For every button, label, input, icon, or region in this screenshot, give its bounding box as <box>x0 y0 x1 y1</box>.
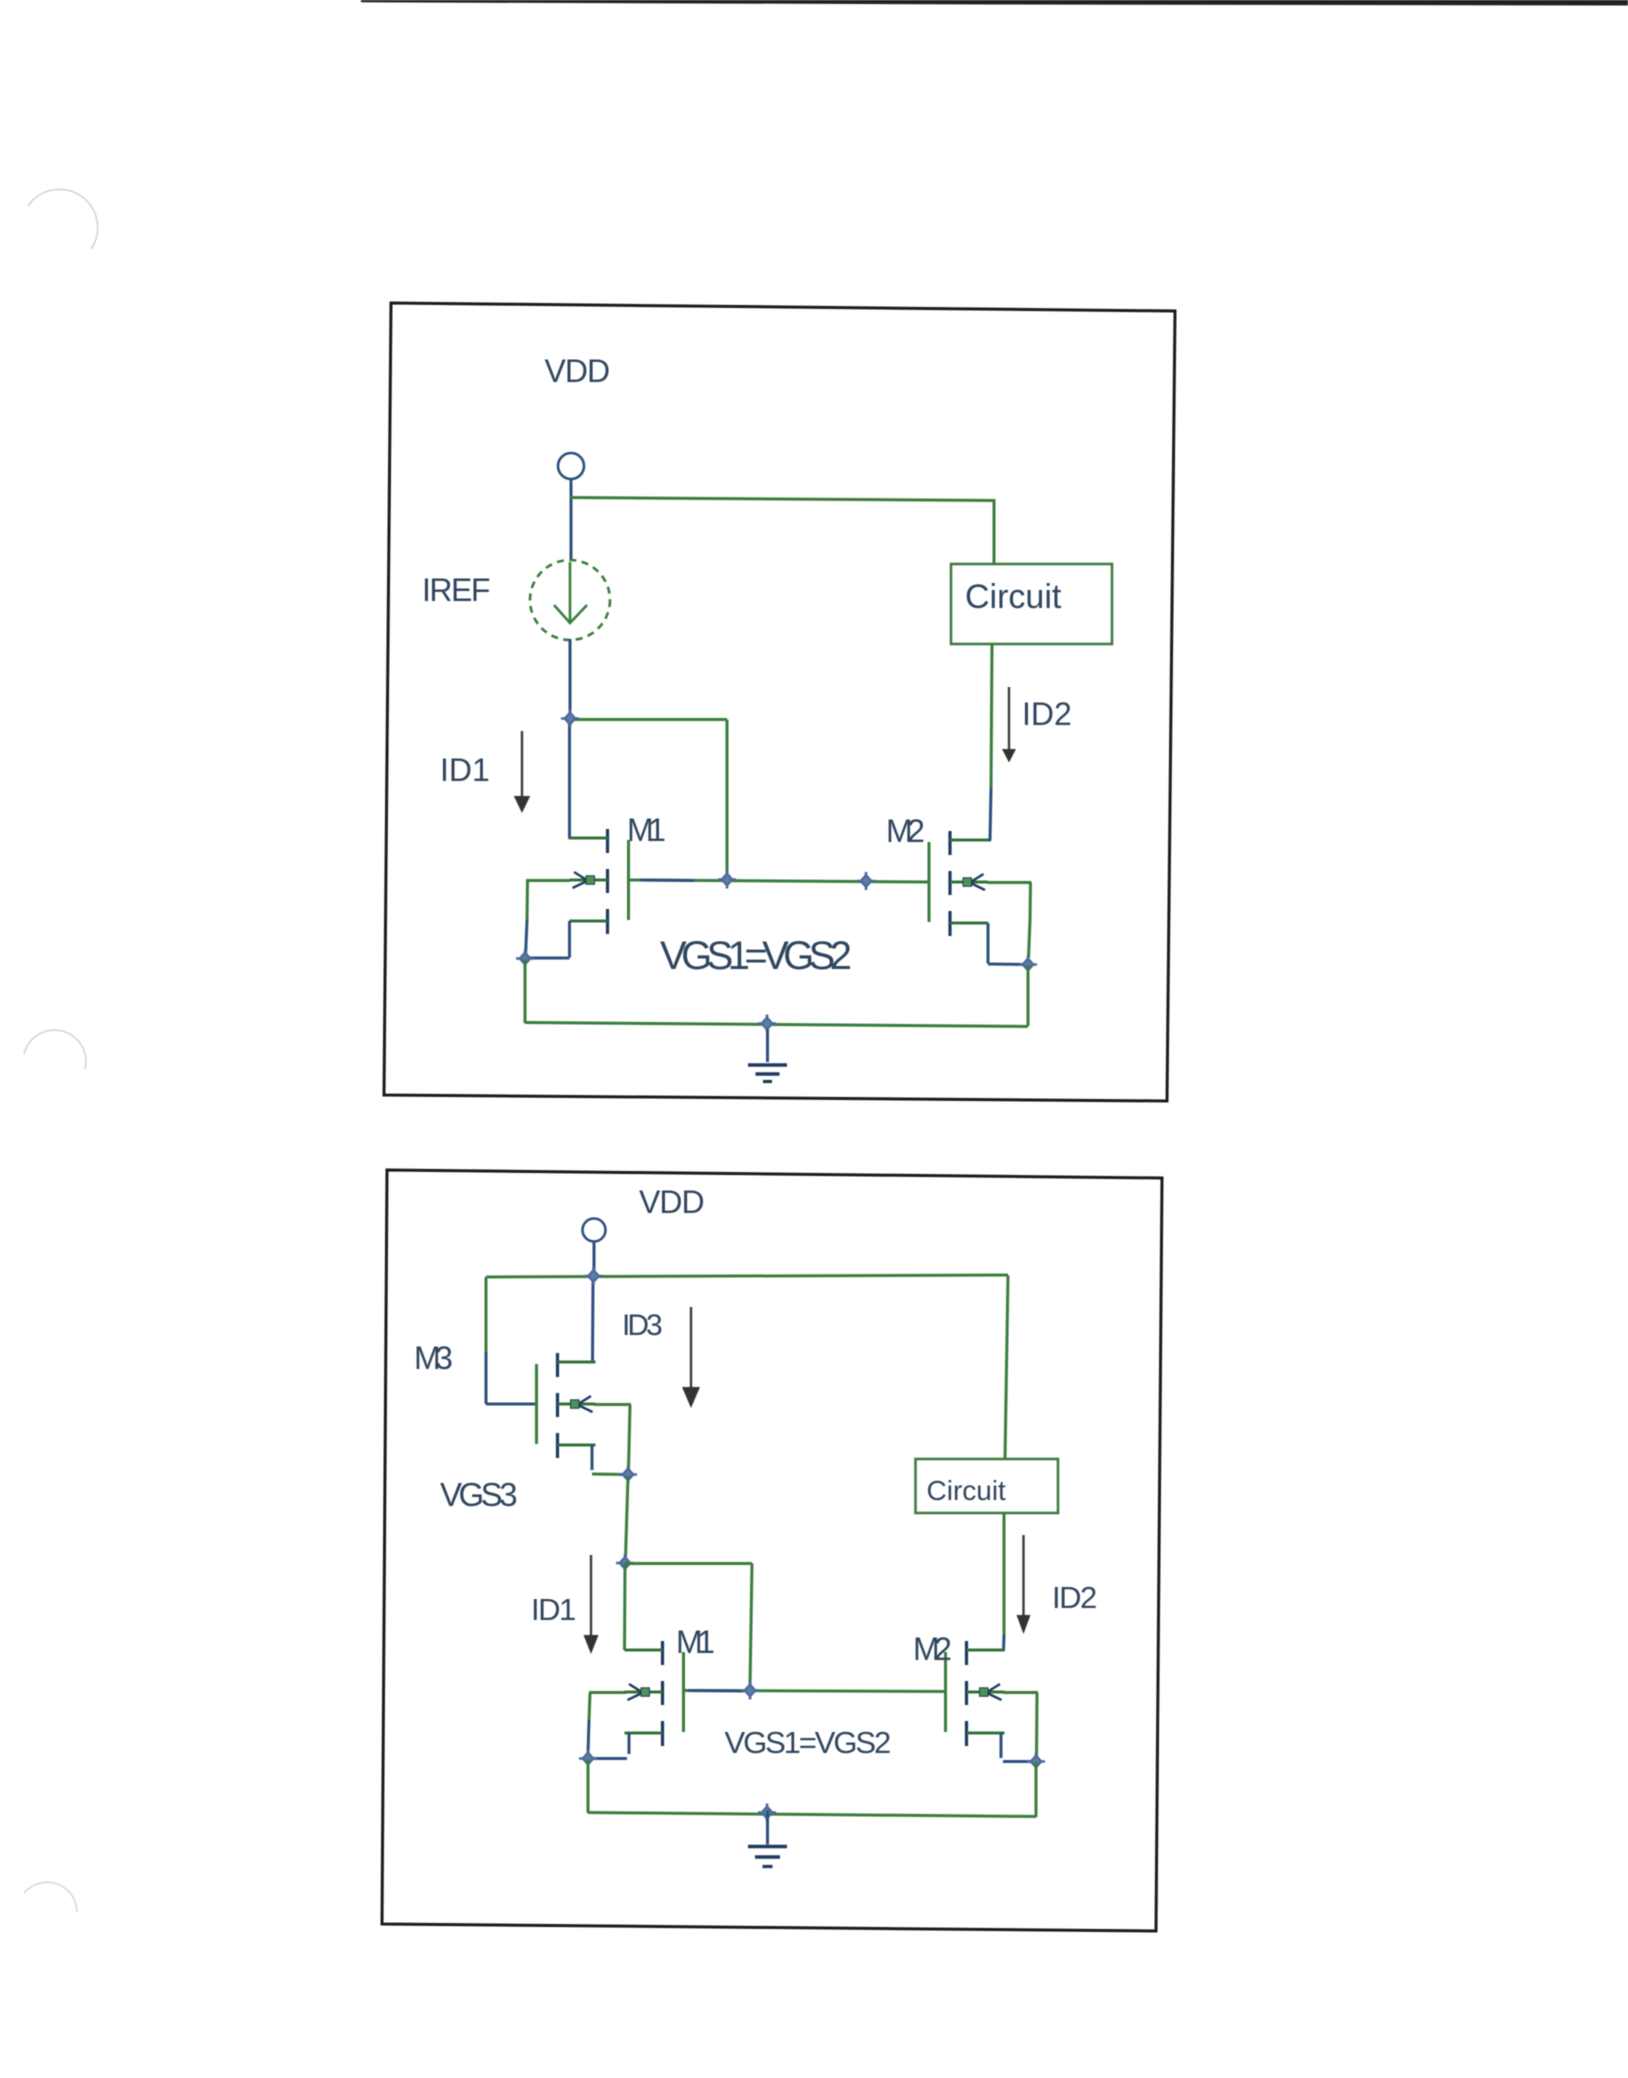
label ID1 <box>440 752 490 788</box>
label VDD (net VDD, schematic 1) <box>545 353 610 389</box>
svg-text:ID1: ID1 <box>531 1592 575 1627</box>
svg-text:ID3: ID3 <box>622 1309 662 1342</box>
wire M1 source leg <box>527 921 570 958</box>
wire VDD terminal to IREF / rail <box>570 478 573 561</box>
wire gate bus M1 to M2 (schematic 2) <box>684 1691 946 1692</box>
wire M3 source leg <box>592 1445 626 1475</box>
wire M1 source leg (schematic 2) <box>590 1733 629 1759</box>
node gate bus junction 1 <box>718 871 736 889</box>
node gate bus dot (schematic 2) <box>741 1682 759 1700</box>
circuit block (schematic 1) <box>951 564 1112 644</box>
label M1 (schematic 2) <box>676 1624 714 1660</box>
svg-text:Circuit: Circuit <box>965 578 1062 616</box>
schematic 1 frame <box>384 303 1175 1101</box>
svg-text:VGS3: VGS3 <box>440 1476 516 1513</box>
schematic 2 frame <box>382 1170 1162 1931</box>
wire node B down to M1 drain <box>623 1564 627 1650</box>
circuit block (schematic 2) <box>916 1459 1059 1513</box>
wire M2 bulk to source node <box>987 883 1032 959</box>
current arrow ID1 <box>514 731 530 813</box>
node B dot (M1 drain node) <box>616 1554 634 1572</box>
wire VDD rail (schematic 2) <box>486 1275 1008 1277</box>
wire node B to gate loop <box>625 1564 752 1687</box>
node VDD terminal (schematic 1) <box>558 453 584 479</box>
svg-text:IREF: IREF <box>422 572 490 608</box>
node ground rail dot <box>758 1015 776 1033</box>
wire rail dot to M3 drain <box>591 1281 595 1363</box>
node M2 source dot (schematic 2) <box>1027 1753 1045 1771</box>
label M2 (schematic 2) <box>913 1631 951 1667</box>
wire IREF to node A <box>569 639 572 719</box>
node M1 source dot (schematic 2) <box>579 1750 597 1768</box>
svg-text:M2: M2 <box>886 813 924 849</box>
wire gate bus M1 to M2 <box>629 880 928 882</box>
transistor M2 (schematic 2, mirrored) <box>944 1641 1005 1746</box>
svg-text:M1: M1 <box>676 1624 714 1660</box>
wire node A down to M1 drain <box>568 719 571 839</box>
svg-text:VGS1=VGS2: VGS1=VGS2 <box>660 934 851 978</box>
svg-text:ID2: ID2 <box>1022 696 1072 732</box>
wire M1 source to ground rail <box>524 959 527 1023</box>
wire M1 bulk to source node <box>526 881 571 958</box>
label ID2 (schematic 2) <box>1052 1580 1096 1615</box>
ground (schematic 1) <box>748 1029 787 1082</box>
label Circuit <box>965 578 1062 616</box>
wire M1 bulk to source node (schematic 2) <box>588 1693 626 1754</box>
current arrow ID2 (schematic 2) <box>1017 1535 1031 1634</box>
svg-text:M3: M3 <box>414 1340 452 1376</box>
transistor M1 (schematic 2) <box>625 1641 686 1746</box>
wire rail to Circuit block (schematic 2) <box>1005 1276 1008 1460</box>
transistor M3 (mirrored) <box>535 1353 596 1458</box>
ground (schematic 2) <box>748 1811 787 1867</box>
wire Circuit block to M2 drain (schematic 2) <box>1002 1513 1006 1651</box>
label VGS1=VGS2 (schematic 2) <box>725 1725 890 1760</box>
wire ground rail (schematic 1) <box>525 1023 1028 1027</box>
svg-text:Circuit: Circuit <box>927 1475 1007 1506</box>
transistor M1 (schematic 1) <box>570 829 631 934</box>
current source IREF <box>530 560 610 640</box>
node VDD terminal (schematic 2) <box>583 1219 606 1242</box>
wire VGS3 node down to node B <box>626 1476 629 1558</box>
wire M3 bulk down to source node <box>594 1405 631 1470</box>
node A dot (IREF/M1 drain) <box>561 710 579 728</box>
current arrow ID3 <box>682 1307 700 1408</box>
wire M2 source leg <box>988 923 1026 965</box>
wire M2 source to ground rail <box>1027 965 1030 1026</box>
svg-text:VDD: VDD <box>639 1184 704 1220</box>
wire M1 source to ground rail (schematic 2) <box>587 1759 590 1813</box>
wire VDD terminal to rail <box>593 1241 596 1270</box>
svg-text:ID2: ID2 <box>1052 1580 1096 1615</box>
label VGS1=VGS2 (schematic 1) <box>660 934 851 978</box>
svg-text:VGS1=VGS2: VGS1=VGS2 <box>725 1725 890 1760</box>
label ID3 <box>622 1309 662 1342</box>
label M1 <box>627 812 665 848</box>
svg-text:M1: M1 <box>627 812 665 848</box>
current arrow ID1 (schematic 2) <box>584 1555 599 1654</box>
label M3 <box>414 1340 452 1376</box>
wire M2 source leg (schematic 2) <box>1001 1733 1033 1762</box>
node M2 source dot <box>1019 956 1037 974</box>
label ID2 <box>1022 696 1072 732</box>
wire Circuit block to M2 drain <box>988 643 992 840</box>
label IREF <box>422 572 490 608</box>
node ground rail dot (schematic 2) <box>758 1804 776 1822</box>
wire node A to M1 gate loop <box>570 720 727 880</box>
wire M2 bulk to source node (schematic 2) <box>1003 1693 1038 1758</box>
transistor M2 (schematic 1, mirrored) <box>928 831 989 936</box>
node gate bus junction 2 <box>857 872 875 890</box>
node M3 source dot (VGS3 node) <box>619 1466 637 1484</box>
node VDD rail dot <box>585 1267 603 1285</box>
label M2 <box>886 813 924 849</box>
label VDD (net VDD, schematic 2) <box>639 1184 704 1220</box>
svg-text:ID1: ID1 <box>440 752 490 788</box>
wire M2 source to ground rail (schematic 2) <box>1035 1762 1038 1817</box>
label Circuit (schematic 2) <box>927 1475 1007 1506</box>
wire VDD rail to Circuit block <box>570 498 995 566</box>
wire rail to M3 gate (diode connection) <box>486 1277 538 1404</box>
label ID1 (schematic 2) <box>531 1592 575 1627</box>
label VGS3 <box>440 1476 516 1513</box>
node M1 source dot <box>516 950 534 968</box>
wire ground rail (schematic 2) <box>588 1813 1036 1817</box>
current arrow ID2 <box>1002 687 1016 763</box>
svg-text:M2: M2 <box>913 1631 951 1667</box>
svg-text:VDD: VDD <box>545 353 610 389</box>
